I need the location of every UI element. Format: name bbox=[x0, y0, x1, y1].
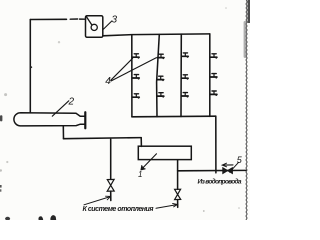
svg-text:1: 1 bbox=[138, 170, 142, 179]
tank 2 flange plate bbox=[84, 112, 86, 128]
svg-text:К системе отопления: К системе отопления bbox=[83, 206, 154, 213]
tap riser3 row3 bbox=[182, 93, 189, 98]
float circle inside box 3 bbox=[91, 24, 97, 30]
wire: left riser pipe from tank top up to top-left corner bbox=[29, 20, 31, 113]
tap riser2 row3 bbox=[157, 93, 164, 98]
label 1 leader with arrowhead bbox=[142, 154, 157, 169]
pipe: below valve to caption arrow bbox=[177, 200, 179, 208]
tap riser2 row2 bbox=[157, 76, 164, 81]
tap riser3 row1 bbox=[182, 53, 189, 58]
wire: box 3 to top distribution line bbox=[103, 34, 210, 36]
tap riser4 row1 bbox=[210, 54, 217, 59]
caption arrow to heating outlet pipe bbox=[84, 197, 110, 205]
wire: cold water supply line bbox=[178, 169, 247, 171]
label 4 leader to riser2 tap bbox=[111, 58, 156, 81]
node: small junction nub on left pipe bbox=[30, 66, 32, 68]
riser 3 bbox=[180, 34, 182, 116]
label 2 leader bbox=[52, 101, 69, 116]
pipe: outlet down from horizontal run (to heating system) bbox=[110, 139, 112, 179]
valve (gate) on heater drop bbox=[175, 189, 181, 194]
wire: right drop pipe to water supply line bbox=[215, 116, 217, 173]
tap riser2 row1 bbox=[157, 54, 164, 59]
label 3 leader bbox=[103, 21, 112, 30]
pipe: step down into heater 1 top bbox=[140, 138, 142, 147]
caption dash arrow to heater drop pipe bbox=[156, 205, 177, 209]
tap riser3 row2 bbox=[182, 75, 189, 80]
wire: top horizontal into box 3 bbox=[30, 18, 66, 20]
svg-text:3: 3 bbox=[112, 15, 118, 26]
svg-text:2: 2 bbox=[68, 97, 75, 108]
pipe: tank bottom outlet down bbox=[62, 126, 64, 139]
heater 1 (boiler) rectangle bbox=[138, 146, 191, 159]
pipe: below valve bbox=[110, 191, 112, 200]
riser 2 bbox=[157, 35, 160, 117]
riser 1 bbox=[131, 35, 133, 117]
tank 2 (storage water heater) body bbox=[14, 113, 85, 126]
valve (gate) on heating outlet bbox=[107, 179, 114, 185]
tap riser1 row1 bbox=[133, 54, 140, 59]
box 3 (air vent / expansion device) bbox=[86, 16, 103, 38]
pipe: heater 1 bottom drop bbox=[177, 160, 179, 189]
svg-text:Из водопровода: Из водопровода bbox=[198, 178, 242, 186]
tap riser4 row2 bbox=[210, 74, 217, 79]
valve 5 (filled) on water supply bbox=[223, 168, 228, 174]
tap riser1 row3 bbox=[133, 94, 140, 99]
label 5 leader bbox=[230, 162, 239, 172]
svg-text:4: 4 bbox=[105, 76, 111, 87]
diagonal lever inside box 3 bbox=[86, 16, 92, 25]
wire: grid bottom return line bbox=[132, 115, 216, 118]
pipe: horizontal run to heater 1 bbox=[64, 138, 142, 139]
flow direction arrow bbox=[223, 164, 233, 166]
label 4 leader to riser1 tap bbox=[111, 58, 133, 80]
tap riser4 row3 bbox=[210, 91, 217, 96]
tap riser1 row2 bbox=[133, 75, 140, 80]
riser 4 bbox=[209, 34, 211, 117]
